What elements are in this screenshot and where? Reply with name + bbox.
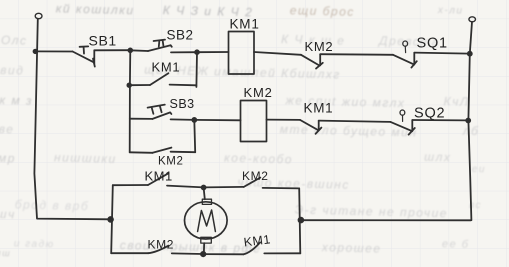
wire: node B down to aux row [195,52,198,87]
wire: bridge top right [204,186,244,189]
node: KM1 aux row [127,83,131,87]
svg-text:KM2: KM2 [244,85,273,100]
svg-text:нишшики: нишшики [54,150,117,166]
wire: bridge mid to right rail [301,219,471,221]
svg-text:KM2: KM2 [242,169,268,183]
svg-text:SB1: SB1 [89,33,117,49]
wire: bridge bottom right of motor [203,253,244,255]
svg-text:х-ли: х-ли [437,5,464,17]
wire: node C down to aux row 2 [193,120,196,152]
terminal (left supply) [35,13,42,18]
wire: KM1 coil to KM2 contact [254,52,301,55]
schematic ink [34,13,476,256]
wire: SB1 to node A [94,49,130,51]
pushbutton SB3 (NO) [130,105,172,119]
svg-text:шлх: шлх [424,150,452,165]
wire: bridge bottom right end [264,252,300,254]
wire: left rail [34,19,110,220]
svg-text:и гадю: и гадю [14,238,55,250]
node: motor bottom [201,252,205,256]
svg-text:KM1: KM1 [152,60,181,75]
wire: KM2 contact to SQ1 [320,53,393,56]
svg-text:хорошее: хорошее [321,240,382,256]
svg-text:к м з: к м з [0,93,33,108]
node: bridge left mid [108,217,113,222]
svg-text:KM2: KM2 [305,39,334,54]
limit switch SQ2 (NC) [391,110,415,135]
pushbutton SB2 (NO) [130,40,172,51]
svg-text:KM1: KM1 [145,169,173,184]
contact KM1 (bridge top-left) [148,173,168,185]
wire: SB2 to node B [171,51,197,53]
svg-text:кй кошилки: кй кошилки [56,1,135,17]
svg-text:SQ2: SQ2 [414,106,445,122]
svg-text:KM1: KM1 [304,101,334,116]
contact KM2 (NO aux, seal-in row 2) [130,148,196,153]
wire: SB3 to node C [171,118,195,121]
svg-text:еи: еи [472,164,486,175]
svg-text:SB3: SB3 [170,97,195,111]
svg-text:KM1: KM1 [230,17,260,32]
svg-text:брод в врб: брод в врб [15,197,90,213]
contact KM2 (bridge bottom-left) [148,246,168,254]
wire: KM2 coil to KM1 contact [267,119,301,121]
wire: KM1 contact to SQ2 [319,121,391,122]
svg-text:SB2: SB2 [167,28,194,43]
node: motor top [202,186,206,190]
svg-text:шч: шч [0,207,16,221]
wire: bridge top right end [263,187,300,190]
node: left rail to row 1 [34,50,38,54]
pushbutton SB1 (NC) [73,46,95,66]
svg-text:вид: вид [0,63,24,78]
svg-text:ве: ве [0,122,15,136]
wire: bridge right vertical [299,188,300,253]
coil KM1 [229,32,255,75]
motor M1 [185,188,228,254]
wire: bridge top left [113,184,148,186]
contact KM1 (bridge bottom-right) [244,242,261,254]
svg-text:лш: лш [0,248,11,258]
wire: node C to KM2 coil [194,119,240,121]
svg-text:ещи брос: ещи брос [290,3,355,19]
svg-text:КчЛ: КчЛ [443,94,469,109]
svg-text:мр: мр [0,151,16,165]
wire: bridge bottom mid [172,252,203,255]
contact KM1 (NO aux, seal-in) [129,73,196,85]
svg-text:KM2: KM2 [148,238,174,252]
node: right rail row 1 [468,52,472,56]
svg-text:ее б: ее б [442,238,470,251]
node: bridge right mid [299,218,304,223]
node A [128,48,132,52]
wire: node B to KM1 coil [197,51,229,53]
svg-text:Олс: Олс [1,33,28,48]
wire: SQ1 to right rail [414,53,470,54]
node: right rail row 2 [466,119,470,123]
contact KM1 (NC, row 2) [300,120,321,134]
wire: vertical branch left (node A down) [129,50,132,152]
svg-text:SQ1: SQ1 [417,36,448,52]
wire: right rail [468,22,472,220]
wire: bridge bottom left [111,252,148,254]
node B [195,50,199,54]
contact KM2 (NC, row 1) [301,54,323,68]
contact KM2 (bridge top-right) [244,178,260,187]
terminal (right supply) [469,17,476,22]
wire: bridge left vertical [111,185,113,253]
node C [192,118,196,122]
coil KM2 [241,101,267,142]
limit switch SQ1 (NC) [393,41,417,68]
svg-text:KM2: KM2 [158,156,183,168]
svg-text:кое-кообо: кое-кообо [224,151,293,167]
svg-text:лб: лб [462,124,480,138]
wire: bridge top mid [167,186,204,188]
wire: row 1 left [35,50,72,52]
wire: SQ2 to right rail [412,119,468,121]
